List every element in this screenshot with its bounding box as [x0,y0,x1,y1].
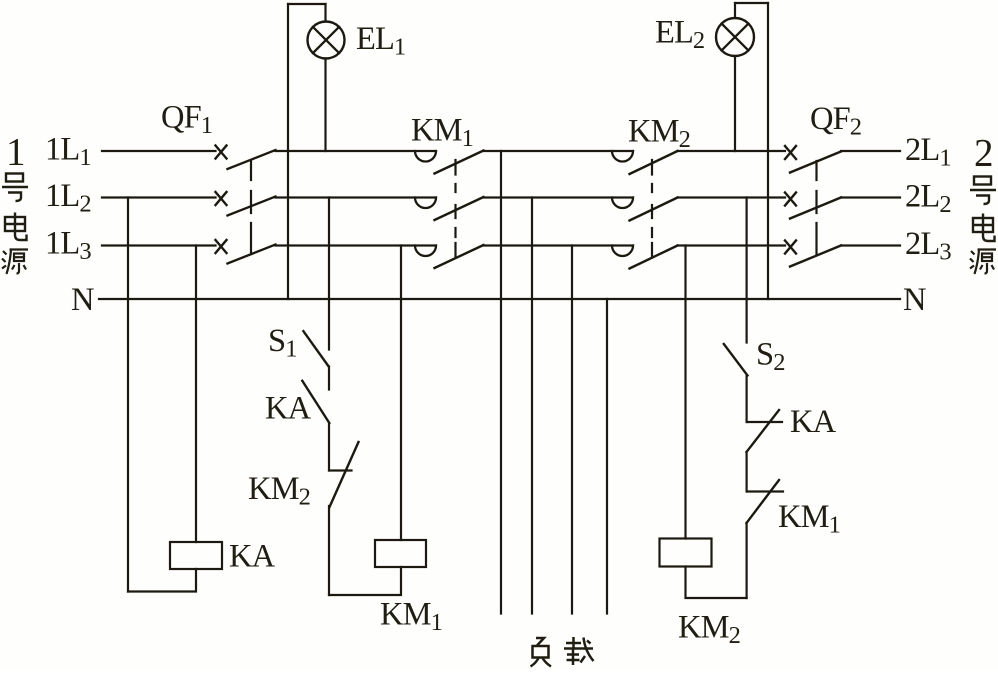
contact KA normally-closed [747,410,783,452]
KM1 pole 3 blade [435,245,484,268]
wire from 2L3 to KM2 coil top [684,246,686,539]
wire 2L1 row right segment [841,150,900,152]
svg-text:QF1: QF1 [161,100,212,140]
QF1 pole 3 blade [228,245,276,264]
wire 1L3 row after QF1 [276,244,437,246]
wire 1L3 row between KM1 and KM2 [484,244,634,246]
wire EL2 right vertical to N [767,3,769,299]
contact KM2 normally-closed [329,442,359,507]
KM2 pole 3 arc [612,246,633,257]
svg-text:S2: S2 [756,337,785,377]
lamp EL1 branch [288,4,345,299]
wire 2L3 row right segment [841,244,900,246]
wire S1 to KA contact [328,367,330,390]
character yuan right [970,250,996,275]
svg-text:KM2: KM2 [678,610,740,650]
svg-text:N: N [71,282,94,318]
QF1 linkage dashed [250,161,252,254]
KM1 linkage dashed [454,160,456,257]
contactor KM2 main contacts [612,151,678,269]
wire EL1 lamp vertical lower [324,59,326,152]
svg-text:KM2: KM2 [248,471,310,511]
character hao right [970,177,996,205]
svg-text:S1: S1 [268,323,297,363]
wire 1L1 row left segment [102,150,216,152]
wire EL1 left vertical to N [287,4,289,299]
QF2 pole 3 cross [785,241,796,254]
wire KA coil top to 1L3 [195,246,197,543]
wire 1L1 row between KM1 and KM2 [484,150,634,152]
KM1 pole 1 blade [435,151,484,174]
KM1 pole 3 arc [415,246,436,257]
KM2 pole 2 arc [612,198,633,209]
wire EL2 lamp vertical upper [734,3,736,18]
wire 1L2 row left segment [102,196,216,198]
svg-text:KA: KA [229,539,276,575]
circuit breaker QF2 [785,146,841,267]
wire from 1L2 down to S1 [328,198,330,350]
svg-text:KA: KA [265,391,312,427]
contactor KM1 main contacts [415,151,484,269]
lamp EL2 [716,18,754,56]
wire KM2 coil bottom U [686,567,747,599]
wire KM1 coil top to 1L3 [400,246,402,541]
QF2 pole 1 cross [785,146,796,159]
wire from 1L2 to KA coil bottom [127,198,129,592]
KM1 pole 1 arc [415,151,436,162]
wire 1L2 row between KM2 and QF2 [678,196,786,198]
svg-text:1L3: 1L3 [45,226,91,266]
KM1 pole 2 blade [435,197,484,220]
contactor coil KM2 [660,539,712,567]
character dian left [5,213,27,241]
contact KA normally-open [302,381,329,423]
QF2 linkage dashed [815,161,817,254]
character hao left [2,174,28,202]
wire from 2L2 down to S2 [745,198,747,343]
svg-text:2L2: 2L2 [905,179,951,219]
svg-text:KM2: KM2 [628,114,690,154]
wire EL1 lamp vertical upper [324,4,326,22]
svg-text:2L1: 2L1 [905,132,951,172]
QF1 pole 2 blade [228,197,276,216]
wire 1L3 row left segment [102,244,216,246]
wire S2 to KA NC [745,376,747,423]
character fu of load label [531,638,552,667]
QF2 pole 2 cross [785,193,796,206]
svg-text:1L1: 1L1 [45,132,91,172]
relay coil KA [170,542,222,569]
lamp EL1 [308,22,345,59]
QF2 pole 2 blade [790,198,841,219]
wire 1L1 row between KM2 and QF2 [678,150,786,152]
svg-text:2L3: 2L3 [905,226,951,266]
QF2 pole 3 blade [790,246,841,267]
wire 2L2 row right segment [841,196,900,198]
wire KA coil bottom U [128,569,196,592]
wire EL1 top horizontal [288,3,326,5]
QF1 pole 3 cross [216,240,227,253]
load line from 1L2 [531,198,533,614]
wire right chain lower vertical [745,523,747,598]
QF1 pole 1 cross [216,146,227,159]
character yuan left [2,250,28,275]
wire 1L2 row after QF1 [276,196,437,198]
wire EL2 lamp vertical lower [734,56,736,151]
wire N row [99,298,900,300]
load line from N [606,299,608,614]
circuit breaker QF1 [216,146,276,264]
wire between KA NC and KM1 NC [745,452,747,492]
switch S1 [303,331,328,366]
load line from 1L1 [500,151,502,614]
KM2 pole 1 blade [630,151,678,174]
wire KM2 NC down to bottom U [328,506,330,595]
svg-text:EL1: EL1 [356,21,405,61]
KM2 linkage dashed [651,160,653,257]
svg-text:1L2: 1L2 [45,178,91,218]
KM2 pole 3 blade [630,246,678,269]
svg-text:2: 2 [974,132,994,175]
wire KM1 coil bottom U [329,567,401,595]
KM2 pole 1 arc [612,151,633,162]
QF1 pole 2 cross [216,192,227,205]
wire EL2 top horizontal [735,2,768,4]
QF2 pole 1 blade [790,152,841,173]
load line from 1L3 [571,246,573,614]
character dian right [973,214,995,242]
svg-text:KM1: KM1 [778,499,840,539]
svg-text:1: 1 [6,131,26,174]
QF1 pole 1 blade [228,150,276,169]
contactor coil KM1 [375,540,426,567]
KM2 pole 2 blade [630,198,678,221]
switch S2 [724,344,748,376]
wire KA contact to KM2 NC contact [328,423,330,471]
contact KM1 normally-closed [747,480,784,523]
wire 1L2 row between KM1 and KM2 [484,196,634,198]
KM1 pole 2 arc [415,198,436,209]
svg-text:N: N [903,282,926,318]
svg-text:KM1: KM1 [411,113,473,153]
svg-text:EL2: EL2 [655,15,704,55]
lamp EL2 branch [716,3,768,299]
svg-text:QF2: QF2 [810,101,861,141]
svg-text:KM1: KM1 [380,597,442,637]
svg-text:KA: KA [790,404,837,440]
character zai of load label [564,637,594,665]
wire 1L1 row after QF1 [276,150,437,152]
wire 1L3 row between KM2 and QF2 [678,244,786,246]
